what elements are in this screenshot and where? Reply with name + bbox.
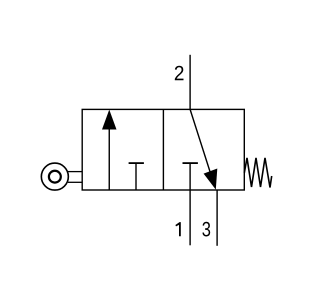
port 1 line	[189, 190, 191, 245]
right box diagonal flow line 2 to 3	[190, 109, 213, 181]
port 2 line	[189, 55, 191, 110]
right box blocked port T stem	[189, 163, 191, 190]
plunger top line	[68, 171, 82, 173]
right box diagonal arrowhead	[204, 169, 218, 190]
left box blocked port T bar	[129, 162, 144, 164]
label 2	[175, 66, 184, 80]
left box flow arrow shaft	[108, 128, 110, 191]
label 1	[175, 222, 180, 236]
roller actuator inner circle	[49, 171, 61, 183]
port 3 line	[216, 190, 218, 246]
left box blocked port T stem	[135, 163, 137, 190]
left box flow arrowhead	[102, 110, 117, 130]
right box blocked port T bar	[183, 162, 198, 164]
roller actuator outer circle	[41, 163, 68, 190]
label 3	[202, 222, 210, 237]
position divider	[162, 109, 164, 190]
valve body outline	[82, 109, 244, 190]
plunger bottom line	[68, 181, 82, 183]
return spring	[244, 158, 271, 188]
